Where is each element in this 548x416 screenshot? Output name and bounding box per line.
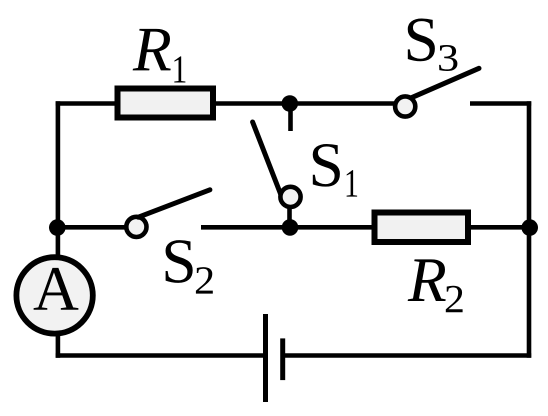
node: junction dot right on middle wire bbox=[521, 219, 538, 236]
wire: from ammeter bottom down to bottom-left corner bbox=[56, 331, 61, 358]
switch S3 circle bbox=[395, 96, 415, 116]
wire: top-left horizontal from left corner to R1 bbox=[56, 101, 118, 106]
switch S2 lever bbox=[138, 190, 210, 217]
label S1 bbox=[313, 144, 357, 197]
wire: middle horizontal from R2 to right node bbox=[468, 225, 529, 230]
wire: left vertical from top wire down to ammeter top bbox=[56, 101, 61, 258]
wire: middle horizontal from S2 gap to R2 (through node) bbox=[201, 225, 375, 230]
resistor R2 bbox=[375, 213, 469, 243]
node: junction dot below S1 on middle wire bbox=[282, 219, 299, 236]
ammeter A bbox=[16, 257, 92, 333]
label R1 bbox=[133, 29, 186, 83]
resistor R1 bbox=[118, 89, 214, 118]
wire: bottom horizontal from battery short plate to right corner bbox=[283, 353, 532, 358]
wire: bottom horizontal from left corner to battery long plate bbox=[56, 353, 266, 358]
switch S1 lever bbox=[253, 122, 281, 194]
switch S3 lever bbox=[412, 68, 480, 97]
wire: stub from top node down to S1 fixed contact bbox=[288, 104, 293, 132]
wire: top horizontal from R1 to S3 circle (through node) bbox=[213, 101, 395, 106]
wire: middle horizontal from left node to S2 circle bbox=[58, 225, 125, 230]
battery: long plate bbox=[263, 314, 268, 402]
node: junction dot left on middle wire bbox=[49, 219, 66, 236]
wire: top-right horizontal after S3 to right corner bbox=[470, 101, 531, 106]
label S2 bbox=[166, 240, 213, 293]
switch S2 circle bbox=[126, 217, 146, 237]
wire: right vertical from top corner to bottom corner bbox=[527, 101, 532, 358]
switch S1 pivot circle bbox=[280, 187, 300, 207]
node: junction dot on top wire bbox=[282, 95, 299, 112]
label S3 bbox=[408, 19, 458, 71]
wire: stub from S1 pivot circle down to middle-wire node bbox=[287, 205, 292, 223]
battery: short plate bbox=[280, 338, 285, 380]
label R2 bbox=[408, 259, 463, 312]
